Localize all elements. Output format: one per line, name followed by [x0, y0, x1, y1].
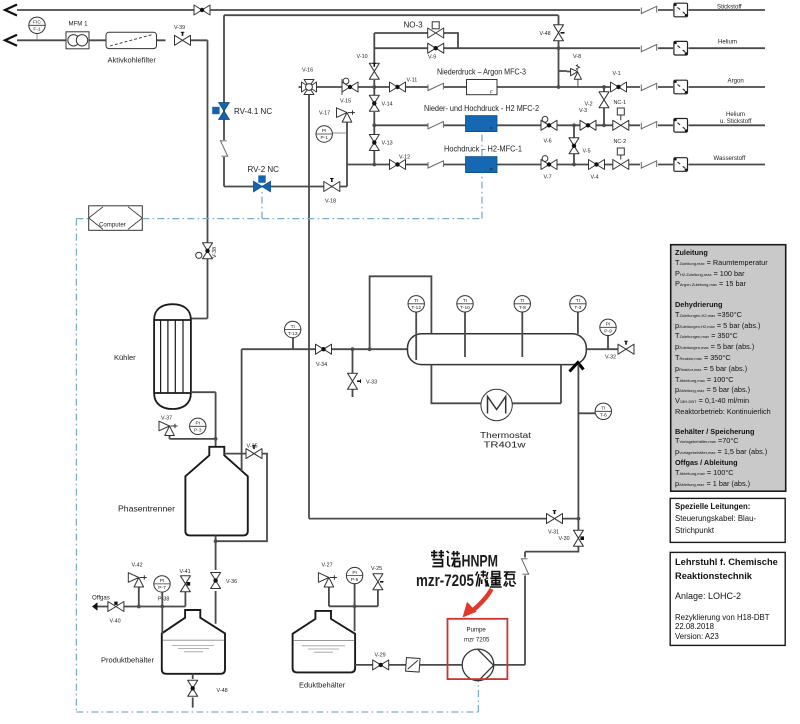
instrument PI P-5: [346, 567, 362, 583]
svg-text:V-27: V-27: [322, 563, 333, 569]
valve V-32: [618, 344, 634, 354]
heating jacket loop: [431, 365, 561, 404]
valve V-35: [246, 449, 262, 459]
svg-text:V-35: V-35: [247, 444, 258, 450]
wire: vapour line into separator: [241, 349, 243, 471]
svg-text:V-25: V-25: [371, 566, 382, 572]
svg-text:V-29: V-29: [375, 653, 386, 659]
filter Aktivkohlefilter: [106, 32, 157, 48]
valve V-30: [573, 530, 583, 546]
svg-text:V-34: V-34: [316, 362, 327, 368]
valve V-27: [318, 573, 337, 587]
svg-text:Eduktbehälter: Eduktbehälter: [299, 681, 346, 690]
computer box: [89, 206, 143, 231]
wire: product tank drain: [192, 674, 194, 708]
svg-text:T-6: T-6: [600, 413, 607, 419]
valve V-11: [390, 82, 406, 92]
liquid level: [163, 639, 225, 641]
MFC-3 box: [467, 80, 498, 95]
valve V-9: [428, 43, 444, 53]
red annotation arrow: [472, 589, 492, 612]
line break before MFC-1: [428, 160, 443, 168]
wire: manifold column: [373, 33, 375, 165]
svg-text:Aktivkohlefilter: Aktivkohlefilter: [108, 56, 157, 65]
arrow left end top line: [5, 5, 17, 16]
reactor vessel: [408, 334, 587, 365]
svg-text:NC-1: NC-1: [614, 100, 627, 106]
wire: offgas header: [97, 584, 329, 634]
valve V-3: [580, 120, 596, 130]
valve V-31: [547, 514, 563, 524]
line break Wasserstoff: [641, 160, 656, 168]
line break before MFC-2: [428, 121, 443, 129]
svg-text:TI: TI: [291, 324, 295, 330]
wire: pump suction line: [355, 664, 525, 666]
svg-text:TI: TI: [520, 298, 524, 304]
svg-text:TI: TI: [414, 298, 418, 304]
svg-text:Offgas: Offgas: [92, 594, 110, 601]
line break He/N2: [641, 121, 656, 129]
instrument TI T-3: [577, 312, 579, 334]
valve V-29: [373, 660, 389, 670]
svg-text:V-40: V-40: [110, 619, 121, 625]
svg-text:Nieder- und Hochdruck - H2 MFC: Nieder- und Hochdruck - H2 MFC-2: [424, 104, 539, 113]
valve top-left: [194, 5, 210, 15]
valve V-6: [541, 120, 557, 130]
svg-text:PI: PI: [606, 322, 611, 328]
valve V-36: [211, 573, 221, 589]
valve V-15: [342, 82, 358, 92]
svg-text:V-13: V-13: [382, 141, 393, 147]
svg-text:V-12: V-12: [399, 155, 410, 161]
valve V-40: [108, 602, 124, 612]
wire: separator top gas line to reactor: [242, 338, 408, 349]
valve V-48: [554, 25, 564, 41]
valve V-5 riser: [573, 125, 575, 164]
endbox Wasserstoff: [674, 158, 688, 172]
instrument PI P-9: [607, 335, 609, 349]
pump mzr 7205: [462, 649, 494, 681]
svg-text:Helium: Helium: [726, 111, 745, 118]
svg-text:MFM 1: MFM 1: [69, 21, 89, 28]
svg-text:PI: PI: [322, 128, 327, 134]
svg-text:V-17: V-17: [319, 111, 330, 117]
svg-text:T-13: T-13: [288, 331, 298, 337]
endbox Stickstoff: [674, 3, 688, 17]
valve V-41: [180, 576, 190, 592]
valve V-39: [175, 35, 191, 45]
svg-text:F: F: [490, 90, 493, 96]
svg-text:V-5: V-5: [583, 149, 591, 155]
svg-text:RV-4.1 NC: RV-4.1 NC: [234, 107, 272, 116]
cooler Kuehler vessel: [154, 304, 191, 409]
valve V-34: [316, 344, 332, 354]
4-way valve V-16: [302, 80, 317, 95]
control cable bus: [76, 132, 482, 712]
valve V-38: [203, 243, 213, 259]
flow meter MFM 1: [66, 32, 89, 49]
wire: helium branch line: [374, 47, 765, 49]
line break on pump riser: [521, 559, 529, 574]
svg-text:TR401w: TR401w: [484, 441, 526, 450]
line break Helium: [641, 44, 656, 52]
wire: H2 line (MFC-1 row): [347, 164, 765, 166]
thermostat motor M: [481, 389, 512, 420]
svg-text:TI: TI: [601, 406, 605, 412]
wire: He/N2 line (MFC-2 row): [374, 124, 765, 126]
valve V-2 riser: [603, 87, 605, 125]
svg-text:Hochdruck – H2-MFC-1: Hochdruck – H2-MFC-1: [444, 145, 523, 154]
svg-text:F: F: [490, 167, 493, 173]
svg-text:V-39: V-39: [174, 25, 185, 31]
tank Produktbehaelter: [162, 610, 225, 674]
svg-text:F-1: F-1: [33, 26, 41, 32]
spec box (gray): [671, 245, 786, 492]
svg-text:Niederdruck – Argon MFC-3: Niederdruck – Argon MFC-3: [437, 68, 526, 77]
svg-text:V-48: V-48: [540, 31, 551, 37]
svg-text:V-33: V-33: [366, 380, 377, 386]
offgas arrow: [92, 602, 98, 610]
svg-text:V-31: V-31: [548, 530, 559, 536]
wire: V-48 column: [559, 15, 568, 87]
inlet arrow into reactor bottom: [570, 363, 584, 372]
wire: inlet line to MFM: [17, 40, 208, 318]
instrument PI P-7: [154, 576, 170, 592]
svg-text:V-2: V-2: [585, 102, 593, 108]
separator Phasentrenner: [185, 447, 247, 536]
valve V-4: [589, 160, 605, 170]
wire: cooler outlet to separator: [170, 392, 216, 447]
svg-text:V-11: V-11: [407, 78, 418, 84]
valve V-14: [369, 95, 379, 111]
valve V-48 bottom: [188, 680, 198, 696]
line break before MFC-3: [428, 83, 443, 91]
svg-text:Thermostat: Thermostat: [480, 431, 532, 440]
svg-text:V-30: V-30: [559, 536, 570, 542]
instrument TI T-13: [285, 321, 301, 337]
svg-text:Helium: Helium: [718, 39, 737, 46]
svg-text:V-7: V-7: [544, 175, 552, 181]
svg-text:V-1: V-1: [613, 71, 621, 77]
svg-text:FIC: FIC: [33, 20, 41, 26]
MFC-2 box (blue): [466, 116, 498, 132]
cooler tubes: [161, 320, 183, 393]
svg-text:P-3: P-3: [194, 428, 202, 434]
svg-text:P-7: P-7: [158, 585, 166, 591]
wire: feed loop over reactor: [370, 276, 432, 349]
instrument TI T-10: [464, 312, 466, 357]
instrument PI P-1: [333, 132, 347, 134]
valve NO-3: [428, 28, 444, 38]
wire: edukt header: [329, 584, 378, 632]
svg-text:V-32: V-32: [605, 355, 616, 361]
title block box 2: [670, 498, 785, 542]
valve V-7: [541, 160, 557, 170]
valve V-12: [390, 160, 406, 170]
instrument PI P-3: [190, 418, 206, 434]
annotation text line 1: CJK hui-nuo + HNPM: [431, 550, 460, 567]
wire: V-16 down line: [308, 95, 310, 519]
wire: reactor outlet: [586, 348, 619, 350]
wire: reactor drain column: [525, 365, 596, 665]
inline filter: [406, 658, 421, 673]
endbox Helium: [674, 41, 688, 55]
svg-text:P-5: P-5: [351, 577, 359, 583]
svg-text:mzr-7205: mzr-7205: [416, 572, 474, 590]
svg-text:T-12: T-12: [411, 305, 421, 311]
wire: nitrogen top line: [17, 9, 765, 11]
svg-text:T-8: T-8: [519, 305, 526, 311]
svg-text:PI: PI: [352, 570, 357, 576]
title block box 3: [670, 552, 785, 645]
svg-text:P-9: P-9: [604, 329, 612, 335]
endbox He/N2: [674, 119, 688, 133]
svg-text:V-10: V-10: [357, 54, 368, 60]
svg-text:V-8: V-8: [573, 54, 581, 60]
svg-text:V-41: V-41: [180, 569, 191, 575]
valve V-18: [324, 182, 340, 192]
svg-text:V-3: V-3: [579, 108, 587, 114]
endbox Argon: [674, 80, 688, 94]
svg-text:Kühler: Kühler: [114, 353, 136, 362]
svg-text:NC-2: NC-2: [614, 139, 627, 145]
svg-text:TI: TI: [463, 298, 467, 304]
red highlight box: [448, 619, 508, 679]
wire: NO-3 bypass: [374, 33, 458, 48]
svg-text:V-6: V-6: [544, 139, 552, 145]
svg-text:Phasentrenner: Phasentrenner: [118, 505, 175, 514]
svg-text:F: F: [490, 126, 493, 132]
instrument FIC F-1: [36, 33, 38, 40]
svg-text:Pumpe: Pumpe: [467, 627, 487, 634]
svg-text:P-1: P-1: [320, 135, 328, 141]
valve V-33 branch: [352, 349, 354, 397]
svg-text:T-10: T-10: [460, 305, 470, 311]
svg-text:PI: PI: [196, 421, 201, 427]
valve V-17: [337, 108, 356, 122]
valve NC-1: [613, 120, 629, 130]
svg-text:T-3: T-3: [574, 305, 581, 311]
svg-text:mzr 7205: mzr 7205: [464, 637, 490, 644]
line break Stickstoff: [641, 6, 656, 14]
valve NC-2: [613, 160, 629, 170]
valve RV-2 NC: [254, 175, 271, 191]
wire: V-35 bypass: [216, 454, 267, 542]
svg-text:PI: PI: [160, 578, 165, 584]
svg-text:Argon: Argon: [728, 78, 744, 85]
svg-text:V-18: V-18: [325, 199, 336, 205]
svg-text:V-14: V-14: [382, 102, 393, 108]
svg-text:V-15: V-15: [340, 99, 351, 105]
tank Eduktbehaelter: [293, 611, 356, 673]
wire: separator bottom outlet: [215, 535, 217, 623]
line break on RV column: [220, 141, 228, 156]
svg-text:Wasserstoff: Wasserstoff: [714, 155, 746, 162]
wire: argon line (manifold row): [299, 86, 766, 88]
svg-text:V-36: V-36: [226, 579, 237, 585]
svg-text:P-38: P-38: [158, 597, 169, 603]
instrument TI T-12: [415, 312, 417, 360]
line break Argon: [641, 83, 656, 91]
svg-text:V-4: V-4: [591, 175, 599, 181]
svg-text:u. Stickstoff: u. Stickstoff: [720, 118, 752, 125]
instrument TI T-8: [521, 312, 523, 357]
valve V-10: [369, 63, 379, 79]
wire: V-31 line: [309, 518, 578, 520]
svg-text:RV-2 NC: RV-2 NC: [248, 165, 280, 174]
valve V-1: [611, 82, 627, 92]
valve V-13: [369, 135, 379, 151]
svg-text:TI: TI: [576, 298, 580, 304]
svg-text:V-9: V-9: [428, 55, 436, 61]
svg-text:V-16: V-16: [302, 68, 313, 74]
svg-text:V-38: V-38: [212, 247, 218, 258]
svg-text:V-37: V-37: [161, 416, 172, 422]
valve RV-4.1 NC: [212, 103, 229, 120]
wire: H2 return line: [224, 15, 559, 186]
svg-text:HNPM: HNPM: [462, 553, 499, 571]
MFC-1 box (blue): [466, 157, 498, 173]
relief valve V-8: [567, 65, 582, 87]
instrument TI T-6: [595, 403, 611, 419]
liquid level: [293, 640, 354, 642]
svg-text:Stickstoff: Stickstoff: [717, 4, 742, 11]
valve V-37: [159, 421, 178, 435]
svg-text:Computer: Computer: [99, 222, 126, 229]
arrow left end second line: [5, 35, 17, 46]
svg-text:V-42: V-42: [132, 563, 143, 569]
svg-text:V-48: V-48: [217, 688, 228, 694]
svg-text:NO-3: NO-3: [404, 21, 424, 30]
sidebar text: [675, 248, 783, 489]
valve V-25: [373, 574, 383, 590]
svg-text:Produktbehälter: Produktbehälter: [101, 656, 154, 665]
valve V-42: [128, 573, 147, 587]
